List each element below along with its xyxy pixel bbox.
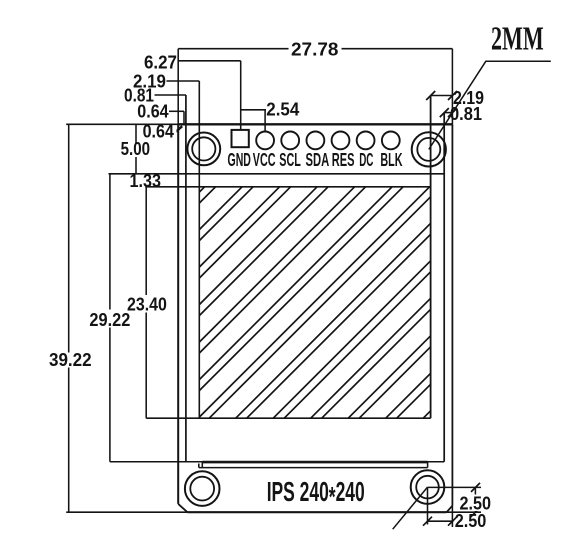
pad SDA [307,132,325,150]
svg-text:6.27: 6.27 [144,53,177,73]
pad DC [357,132,375,150]
dimension 2.54 extension to VCC pad [264,110,266,131]
dimension 2.50 vertical line bottom-right [474,487,476,512]
leader line to 2MM label [429,61,551,149]
dimension 0.81 left line [155,94,187,96]
svg-text:VCC: VCC [253,150,276,170]
svg-text:5.00: 5.00 [121,139,150,159]
connector bar left end [198,464,200,468]
dimension 2.50 hole-center vertical extension [427,487,429,524]
hatch area right border + 2.19R extension up [430,96,432,419]
hatch area top border with left extension [145,186,430,188]
dimension 5.00 line [135,124,137,174]
svg-text:2.54: 2.54 [266,100,299,120]
board outline left edge [177,124,179,504]
svg-text:2MM: 2MM [491,21,544,58]
dimension 27.78 left extension [177,49,179,125]
mounting hole top-left [187,133,220,166]
svg-text:RES: RES [332,150,355,170]
svg-text:0.81: 0.81 [450,104,482,124]
svg-text:BLK: BLK [380,150,402,170]
svg-text:39.22: 39.22 [49,350,92,370]
svg-text:SCL: SCL [279,150,301,170]
pad GND (square) [232,130,249,147]
dimension tick marks [174,91,480,526]
svg-text:IPS 240*240: IPS 240*240 [267,476,365,512]
dimension 2.50 hole-center horizontal extension [428,486,482,488]
display frame right edge + 0.81R extension up [443,113,445,462]
dimension 2.54 line [241,109,266,111]
display active area hatching [199,187,430,418]
dimension 23.40 line (extends up past 1.33) [145,174,147,418]
board top edge left extension for 39.22 [66,123,178,125]
svg-text:27.78: 27.78 [291,39,338,59]
board outline bottom edge [187,511,446,513]
pad BLK [382,132,400,150]
board bottom-left chamfer [178,504,187,512]
display frame bottom edge with left extension to 29.22 dim [110,461,444,463]
dimension 6.27 extension to GND pad [240,61,242,130]
board outline top edge [178,123,452,125]
hatch area border + 2.19 extension up [198,81,200,418]
svg-text:23.40: 23.40 [127,295,167,315]
dimension 6.27 line [178,60,241,62]
display frame top edge (pin strip bottom) with left extension [109,173,445,175]
mounting hole bottom-right [411,470,445,504]
connector bar top edge (thick) [202,461,427,464]
mounting hole bottom-left [185,471,220,506]
dimension 2.50 horizontal line bottom [428,520,454,522]
svg-text:2.50: 2.50 [455,511,487,531]
svg-text:SDA: SDA [306,150,330,170]
connector bar bottom edge [199,467,428,469]
connector bar right end [427,462,429,468]
svg-text:0.64: 0.64 [137,102,168,122]
dimension 2.19 left line [167,80,200,82]
svg-text:1.33: 1.33 [130,171,162,191]
board bottom edge extensions for 39.22 and 2.50 [66,511,187,513]
mounting hole top-right (2MM) [412,132,446,166]
pad SCL [281,132,299,150]
svg-text:29.22: 29.22 [89,310,130,330]
svg-text:DC: DC [359,150,373,170]
pad RES [332,132,350,150]
dimension 0.81 right line [444,112,452,114]
dimension 39.22 line [68,124,70,512]
svg-text:GND: GND [228,150,251,170]
dimension 2.19 right line [431,95,453,97]
white label backgrounds [47,40,493,511]
dimension 29.22 line [109,174,111,462]
board right edge extension down for 2.50 [451,506,453,527]
dimension 27.78 right extension [451,49,453,125]
board bottom-right chamfer [447,506,453,513]
dimension 0.64 first extension [183,111,185,124]
pad VCC [256,132,274,150]
leader line from bottom-right hole [393,487,428,529]
dimension 0.64 first line [169,110,184,112]
hatch area bottom border with left extension [146,417,430,419]
dimension 27.78 line [178,48,452,50]
display frame left edge + 0.81 extension up [185,95,187,462]
board outline right edge [451,124,453,505]
